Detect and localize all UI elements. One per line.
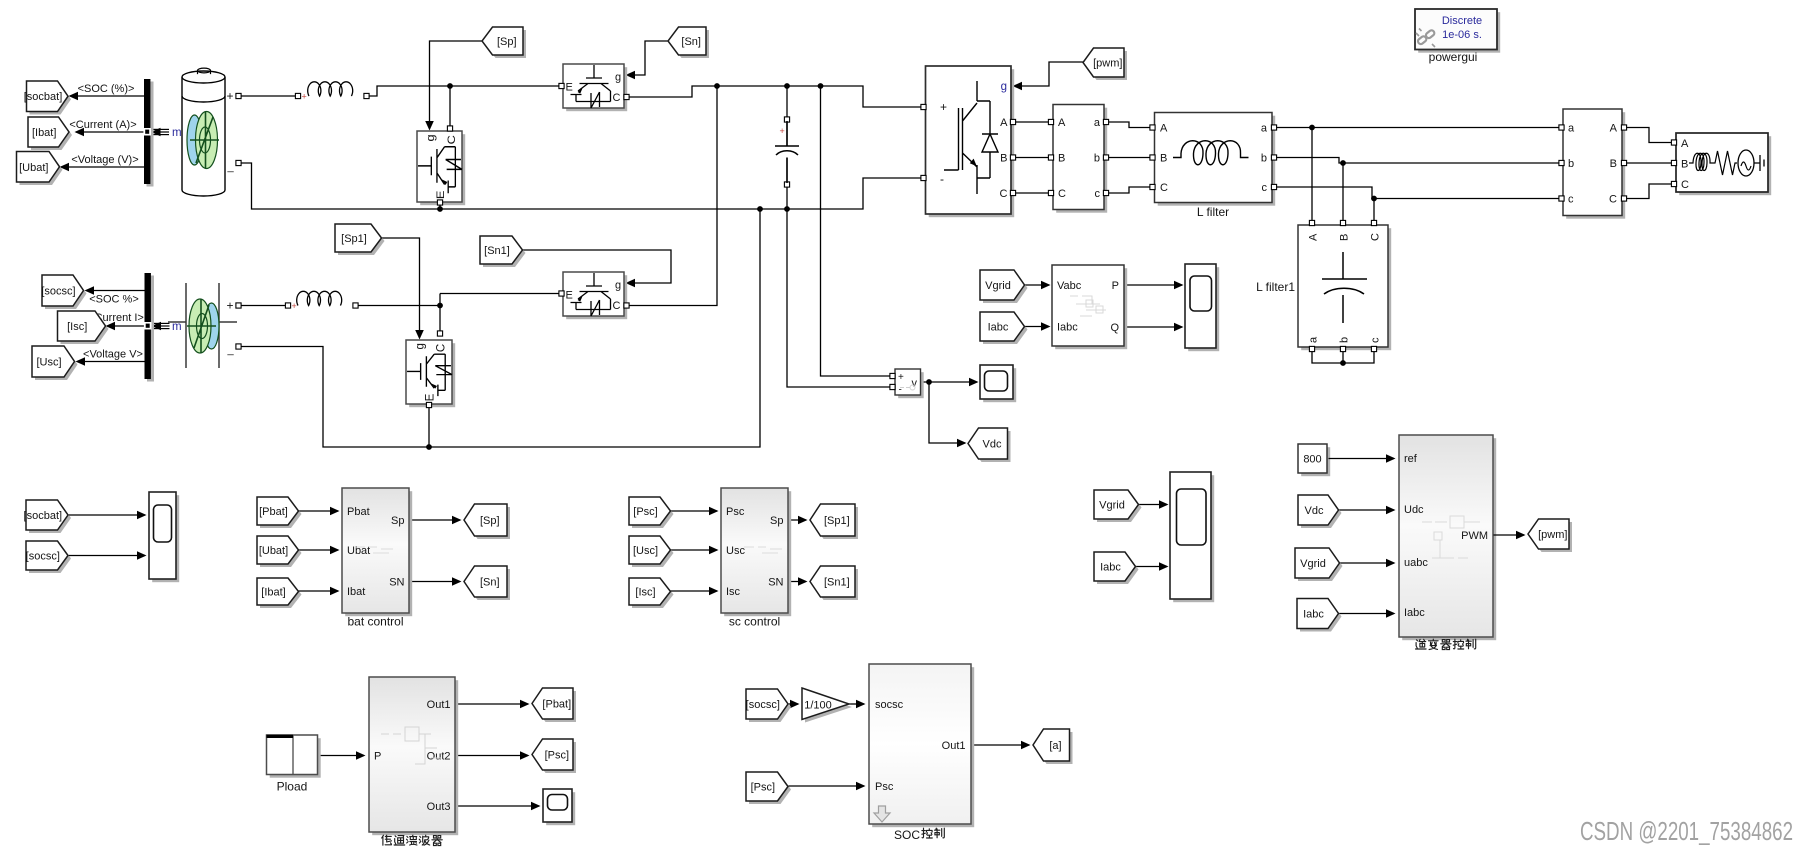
- svg-text:Sp: Sp: [391, 515, 404, 527]
- svg-text:B: B: [1339, 234, 1351, 241]
- svg-text:C: C: [1370, 233, 1382, 241]
- svg-text:powergui: powergui: [1429, 50, 1478, 64]
- svg-text:[Sn1]: [Sn1]: [824, 577, 850, 589]
- svg-text:C: C: [1058, 188, 1066, 200]
- svg-text:[Psc]: [Psc]: [545, 750, 569, 762]
- svg-text:+: +: [898, 372, 904, 383]
- svg-text:Isc: Isc: [726, 586, 741, 598]
- svg-text:A: A: [1610, 123, 1618, 135]
- svg-text:uabc: uabc: [1404, 557, 1428, 569]
- svg-text:[Pbat]: [Pbat]: [259, 506, 288, 518]
- svg-text:<Voltage (V)>: <Voltage (V)>: [71, 154, 138, 166]
- svg-text:Vgrid: Vgrid: [1099, 500, 1125, 512]
- svg-text:[Sp1]: [Sp1]: [824, 515, 850, 527]
- svg-text:[Sp]: [Sp]: [497, 36, 517, 48]
- svg-text:Udc: Udc: [1404, 504, 1424, 516]
- svg-text:[Ibat]: [Ibat]: [261, 587, 285, 599]
- svg-text:Q: Q: [1110, 322, 1119, 334]
- svg-text:Vgrid: Vgrid: [985, 280, 1011, 292]
- svg-text:C: C: [1000, 188, 1008, 200]
- svg-text:b: b: [1339, 337, 1351, 343]
- svg-text:[pwm]: [pwm]: [1538, 529, 1567, 541]
- svg-text:+: +: [227, 299, 234, 313]
- svg-text:Usc: Usc: [726, 545, 745, 557]
- svg-text:[Ibat]: [Ibat]: [32, 127, 56, 139]
- svg-text:Vdc: Vdc: [983, 439, 1002, 451]
- svg-text:bat control: bat control: [347, 615, 403, 629]
- svg-text:[Usc]: [Usc]: [633, 545, 658, 557]
- svg-text:[socsc]: [socsc]: [26, 551, 60, 563]
- svg-text:c: c: [1095, 188, 1101, 200]
- svg-text:<SOC %>: <SOC %>: [89, 294, 139, 306]
- svg-text:+: +: [227, 89, 234, 103]
- svg-text:m: m: [172, 127, 182, 139]
- svg-text:Psc: Psc: [875, 781, 894, 793]
- svg-text:C: C: [1609, 194, 1617, 206]
- svg-text:b: b: [1094, 153, 1100, 165]
- svg-text:B: B: [1160, 153, 1167, 165]
- svg-text:800: 800: [1303, 454, 1321, 466]
- svg-text:[Sn]: [Sn]: [480, 577, 500, 589]
- svg-text:ref: ref: [1404, 453, 1418, 465]
- svg-text:B: B: [1610, 158, 1617, 170]
- svg-text:b: b: [1261, 153, 1267, 165]
- svg-text:v: v: [912, 378, 918, 390]
- svg-text:[socsc]: [socsc]: [41, 286, 75, 298]
- svg-text:-: -: [940, 172, 944, 186]
- svg-text:[socbat]: [socbat]: [24, 91, 63, 103]
- svg-text:A: A: [1000, 117, 1008, 129]
- svg-text:c: c: [1262, 182, 1268, 194]
- svg-text:_: _: [227, 161, 235, 173]
- svg-text:A: A: [1308, 233, 1320, 241]
- svg-text:m: m: [172, 321, 182, 333]
- svg-text:L filter: L filter: [1197, 205, 1229, 219]
- svg-text:Sp: Sp: [770, 515, 783, 527]
- svg-text:a: a: [1094, 117, 1101, 129]
- svg-text:+: +: [292, 301, 297, 311]
- svg-text:-: -: [899, 385, 902, 396]
- svg-text:Out2: Out2: [427, 751, 451, 763]
- svg-text:A: A: [1681, 138, 1689, 150]
- svg-text:[Ubat]: [Ubat]: [19, 162, 48, 174]
- svg-text:C: C: [1160, 182, 1168, 194]
- svg-text:[Usc]: [Usc]: [36, 357, 61, 369]
- svg-text:[socsc]: [socsc]: [746, 699, 780, 711]
- svg-text:Iabc: Iabc: [988, 322, 1009, 334]
- svg-text:SN: SN: [389, 577, 404, 589]
- svg-text:1e-06 s.: 1e-06 s.: [1442, 29, 1482, 41]
- svg-text:<Voltage V>: <Voltage V>: [83, 349, 143, 361]
- svg-text:SOC: SOC: [894, 828, 920, 842]
- svg-text:[Pbat]: [Pbat]: [542, 699, 571, 711]
- svg-text:+: +: [940, 100, 947, 114]
- svg-text:Out1: Out1: [942, 740, 966, 752]
- svg-text:C: C: [1681, 179, 1689, 191]
- svg-text:Pbat: Pbat: [347, 506, 370, 518]
- svg-text:A: A: [1160, 123, 1168, 135]
- svg-text:[Sp]: [Sp]: [480, 515, 500, 527]
- svg-text:Out3: Out3: [427, 801, 451, 813]
- svg-text:[Psc]: [Psc]: [751, 782, 775, 794]
- svg-text:Vdc: Vdc: [1305, 505, 1324, 517]
- svg-text:[Isc]: [Isc]: [635, 587, 655, 599]
- svg-text:a: a: [1261, 123, 1268, 135]
- svg-text:Pload: Pload: [277, 780, 308, 794]
- svg-text:<Current (A)>: <Current (A)>: [69, 119, 136, 131]
- svg-text:+: +: [780, 126, 785, 136]
- svg-text:Iabc: Iabc: [1303, 609, 1324, 621]
- svg-text:_: _: [227, 344, 235, 356]
- svg-text:P: P: [374, 751, 381, 763]
- svg-text:L filter1: L filter1: [1256, 280, 1295, 294]
- svg-text:g: g: [1001, 81, 1007, 93]
- svg-text:[Ubat]: [Ubat]: [259, 545, 288, 557]
- svg-text:[Isc]: [Isc]: [67, 321, 87, 333]
- svg-text:SN: SN: [768, 577, 783, 589]
- svg-text:[a]: [a]: [1049, 740, 1061, 752]
- svg-text:CSDN @2201_75384862: CSDN @2201_75384862: [1580, 818, 1793, 846]
- svg-text:Iabc: Iabc: [1057, 322, 1078, 334]
- svg-text:sc control: sc control: [729, 615, 780, 629]
- svg-text:Iabc: Iabc: [1100, 562, 1121, 574]
- svg-text:c: c: [1568, 194, 1574, 206]
- svg-text:[Sn1]: [Sn1]: [484, 245, 510, 257]
- svg-text:PWM: PWM: [1461, 530, 1488, 542]
- svg-text:a: a: [1568, 123, 1575, 135]
- svg-text:[Psc]: [Psc]: [633, 506, 657, 518]
- svg-text:Psc: Psc: [726, 506, 745, 518]
- svg-text:a: a: [1308, 336, 1320, 343]
- svg-text:P: P: [1112, 280, 1119, 292]
- svg-text:+: +: [302, 92, 307, 102]
- svg-text:Out1: Out1: [427, 699, 451, 711]
- svg-text:socsc: socsc: [875, 699, 904, 711]
- svg-text:B: B: [1681, 159, 1688, 171]
- svg-text:[Sn]: [Sn]: [681, 36, 701, 48]
- svg-text:[pwm]: [pwm]: [1093, 58, 1122, 70]
- svg-text:B: B: [1058, 153, 1065, 165]
- svg-text:Vabc: Vabc: [1057, 280, 1082, 292]
- svg-text:1/100: 1/100: [804, 700, 832, 712]
- svg-text:Iabc: Iabc: [1404, 607, 1425, 619]
- svg-text:Vgrid: Vgrid: [1300, 558, 1326, 570]
- svg-text:Discrete: Discrete: [1442, 15, 1482, 27]
- svg-text:B: B: [1000, 153, 1007, 165]
- svg-text:c: c: [1370, 337, 1382, 343]
- svg-text:b: b: [1568, 158, 1574, 170]
- svg-text:<SOC (%)>: <SOC (%)>: [78, 83, 135, 95]
- svg-text:[socbat]: [socbat]: [24, 510, 63, 522]
- svg-text:[Sp1]: [Sp1]: [341, 233, 367, 245]
- svg-text:Ibat: Ibat: [347, 586, 365, 598]
- svg-text:A: A: [1058, 117, 1066, 129]
